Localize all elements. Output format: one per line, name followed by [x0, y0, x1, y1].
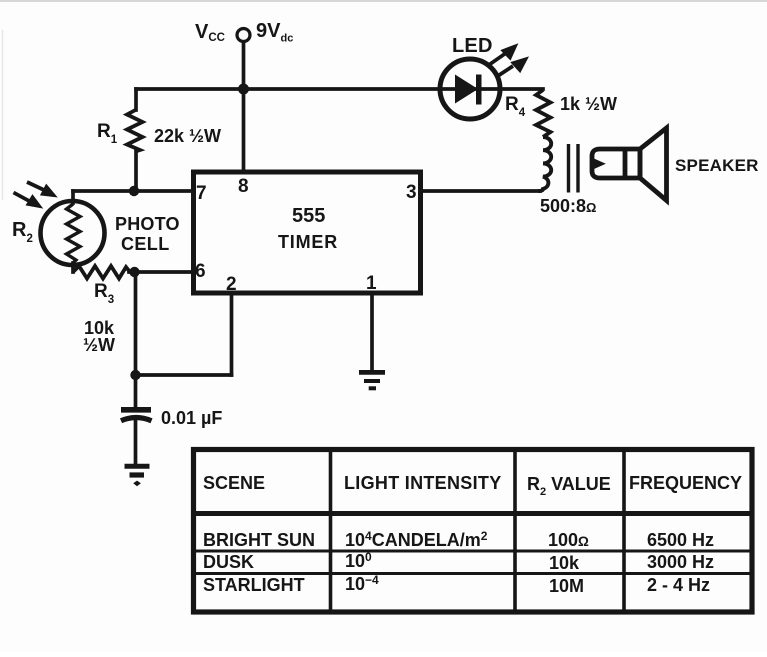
svg-text:555: 555: [292, 205, 325, 227]
svg-text:10M: 10M: [549, 576, 584, 596]
svg-text:2 - 4 Hz: 2 - 4 Hz: [647, 575, 710, 595]
svg-text:STARLIGHT: STARLIGHT: [203, 575, 305, 595]
svg-text:6500 Hz: 6500 Hz: [647, 530, 714, 550]
svg-text:1: 1: [366, 273, 377, 294]
svg-text:½W: ½W: [83, 335, 115, 355]
svg-text:1k ½W: 1k ½W: [560, 94, 617, 114]
svg-text:BRIGHT SUN: BRIGHT SUN: [203, 530, 315, 550]
svg-text:2: 2: [226, 274, 237, 295]
svg-text:8: 8: [238, 176, 249, 197]
svg-text:7: 7: [196, 183, 207, 204]
svg-text:DUSK: DUSK: [203, 552, 254, 572]
svg-text:3000 Hz: 3000 Hz: [647, 552, 714, 572]
svg-text:PHOTO: PHOTO: [115, 214, 180, 234]
svg-text:FREQUENCY: FREQUENCY: [629, 473, 742, 493]
svg-text:10k: 10k: [549, 553, 580, 573]
svg-text:TIMER: TIMER: [278, 232, 338, 252]
svg-text:0.01 µF: 0.01 µF: [161, 408, 222, 428]
svg-text:3: 3: [406, 182, 417, 203]
svg-text:6: 6: [195, 261, 206, 282]
svg-text:22k ½W: 22k ½W: [154, 126, 221, 146]
svg-text:LED: LED: [452, 35, 493, 57]
svg-text:LIGHT INTENSITY: LIGHT INTENSITY: [344, 473, 502, 493]
svg-text:SCENE: SCENE: [203, 473, 265, 493]
svg-text:CELL: CELL: [121, 234, 170, 254]
svg-text:SPEAKER: SPEAKER: [675, 156, 759, 175]
